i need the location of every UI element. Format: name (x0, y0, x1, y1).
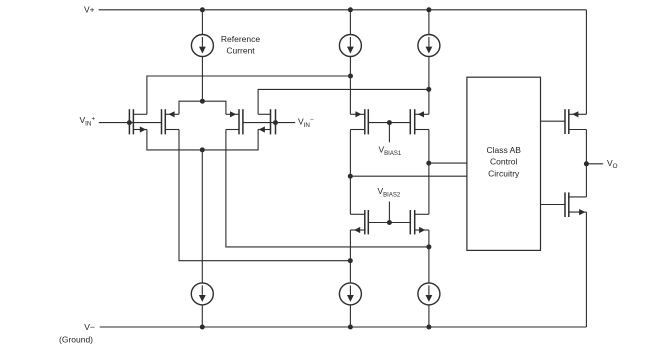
current source I1 (reference) (191, 35, 213, 57)
wire left branch to Class AB box input (350, 175, 467, 177)
svg-text:V+: V+ (84, 5, 95, 15)
transistor M8 (bottom-right N cascode) (410, 210, 429, 234)
svg-text:VO: VO (607, 158, 618, 170)
svg-text:V−: V− (84, 322, 95, 332)
junction right branch box tap (426, 161, 431, 166)
transistor M4 (outer-right N input) (258, 109, 275, 134)
wire M3 drain down and over to right branch low node (226, 130, 429, 247)
svg-text:VBIAS2: VBIAS2 (378, 186, 401, 198)
junction node A (P-pair tail) (200, 99, 205, 104)
junction N-pair tail (200, 147, 205, 152)
svg-text:Control: Control (490, 157, 518, 167)
wire M10 source to ground rail (585, 212, 587, 327)
svg-text:Class AB: Class AB (486, 145, 521, 155)
svg-text:(Ground): (Ground) (59, 335, 93, 345)
wire ref current source to P-pair tail node (201, 57, 203, 102)
wire VBIAS2 stub (388, 202, 390, 223)
current source I6 (418, 283, 440, 305)
transistor M9 (output P) (565, 109, 586, 134)
transistor M2 (inner-left P input) (162, 109, 180, 134)
junction left branch box tap (348, 174, 353, 179)
wire V+ rail right drop to output PMOS source (585, 10, 587, 115)
wire current source I3 top stub (428, 10, 430, 35)
wire VIN+ input lead (99, 122, 162, 124)
junction right branch top node (426, 87, 431, 92)
transistor M6 (top-right P cascode) (410, 109, 429, 134)
svg-text:VIN−: VIN− (298, 117, 314, 130)
current source I5 (339, 283, 361, 305)
wire M1 drain up and over to left cascode branch (147, 76, 351, 114)
junction VIN+ at M1 gate (127, 120, 132, 125)
junction ground rail at I4 (200, 325, 205, 330)
junction left branch top node (348, 74, 353, 79)
wire output node vertical (585, 130, 587, 197)
wire M2 drain down and over to left branch low node (179, 130, 350, 261)
wire right branch mid vertical (428, 130, 430, 215)
wire I2 to left cascode source (349, 57, 351, 115)
svg-text:Reference: Reference (221, 34, 260, 44)
wire M4 drain up and over to right cascode branch (258, 89, 429, 114)
transistor M10 (output N) (565, 192, 586, 217)
wire ref current source top stub (201, 10, 203, 35)
current source I2 (339, 35, 361, 57)
svg-text:VBIAS1: VBIAS1 (379, 145, 402, 157)
transistor M1 (outer-left N input) (129, 109, 147, 134)
svg-text:VIN+: VIN+ (80, 115, 96, 128)
wire I5 to ground rail (349, 305, 351, 327)
wire top cascode gate bus (368, 122, 410, 124)
wire P-pair tail bus to node A (179, 101, 226, 114)
wire I4 to ground rail (201, 305, 203, 327)
junction left branch low node (348, 258, 353, 263)
junction ground rail at I5 (348, 325, 353, 330)
svg-text:Current: Current (226, 45, 255, 55)
wire N-pair tail drop to bottom current source I4 (201, 150, 203, 283)
transistor M5 (top-left P cascode) (350, 109, 368, 134)
wire left branch mid vertical (349, 130, 351, 215)
transistor M7 (bottom-left N cascode) (350, 210, 368, 234)
junction output node VO (584, 161, 589, 166)
junction ground rail at I6 (426, 325, 431, 330)
wire VO tap (586, 163, 603, 165)
junction top rail at ref source (200, 7, 205, 12)
junction VIN- at M4 gate (273, 120, 278, 125)
current source I3 (418, 35, 440, 57)
wire bottom cascode gate bus (368, 222, 410, 224)
junction VBIAS1 gate bus (387, 120, 392, 125)
current source I4 (191, 283, 213, 305)
junction right branch low node (426, 244, 431, 249)
wire box output to M10 gate (541, 204, 566, 206)
wire N-pair source bus (147, 130, 258, 150)
wire VBIAS1 stub (388, 123, 390, 143)
wire right branch lower vertical to I6 (428, 230, 430, 283)
junction top rail at I2 (348, 7, 353, 12)
wire I3 to right cascode source (428, 57, 430, 115)
junction top rail at I3 (426, 7, 431, 12)
wire current source I2 top stub (349, 10, 351, 35)
wire box output to M9 gate (541, 120, 566, 122)
wire left branch lower vertical to I5 (349, 230, 351, 283)
V- (ground) rail (100, 326, 587, 328)
wire VIN- input lead (243, 122, 295, 124)
wire right branch to Class AB box input (429, 162, 467, 164)
junction VBIAS2 gate bus (387, 220, 392, 225)
V+ rail (99, 9, 587, 11)
svg-text:Circuitry: Circuitry (488, 168, 520, 178)
transistor M3 (inner-right P input) (226, 109, 243, 134)
wire I6 to ground rail (428, 305, 430, 327)
Class AB control circuitry block (467, 77, 541, 250)
